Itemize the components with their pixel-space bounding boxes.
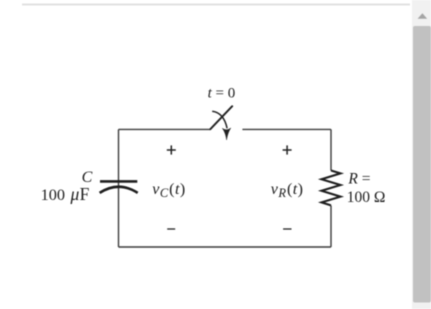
svg-text:t = 0: t = 0: [208, 86, 236, 102]
svg-text:R =: R =: [347, 171, 370, 188]
svg-text:100 Ω: 100 Ω: [347, 189, 386, 206]
svg-text:vR(t): vR(t): [271, 181, 304, 200]
svg-text:vC(t): vC(t): [152, 181, 185, 200]
svg-text:100 μF: 100 μF: [41, 184, 90, 204]
